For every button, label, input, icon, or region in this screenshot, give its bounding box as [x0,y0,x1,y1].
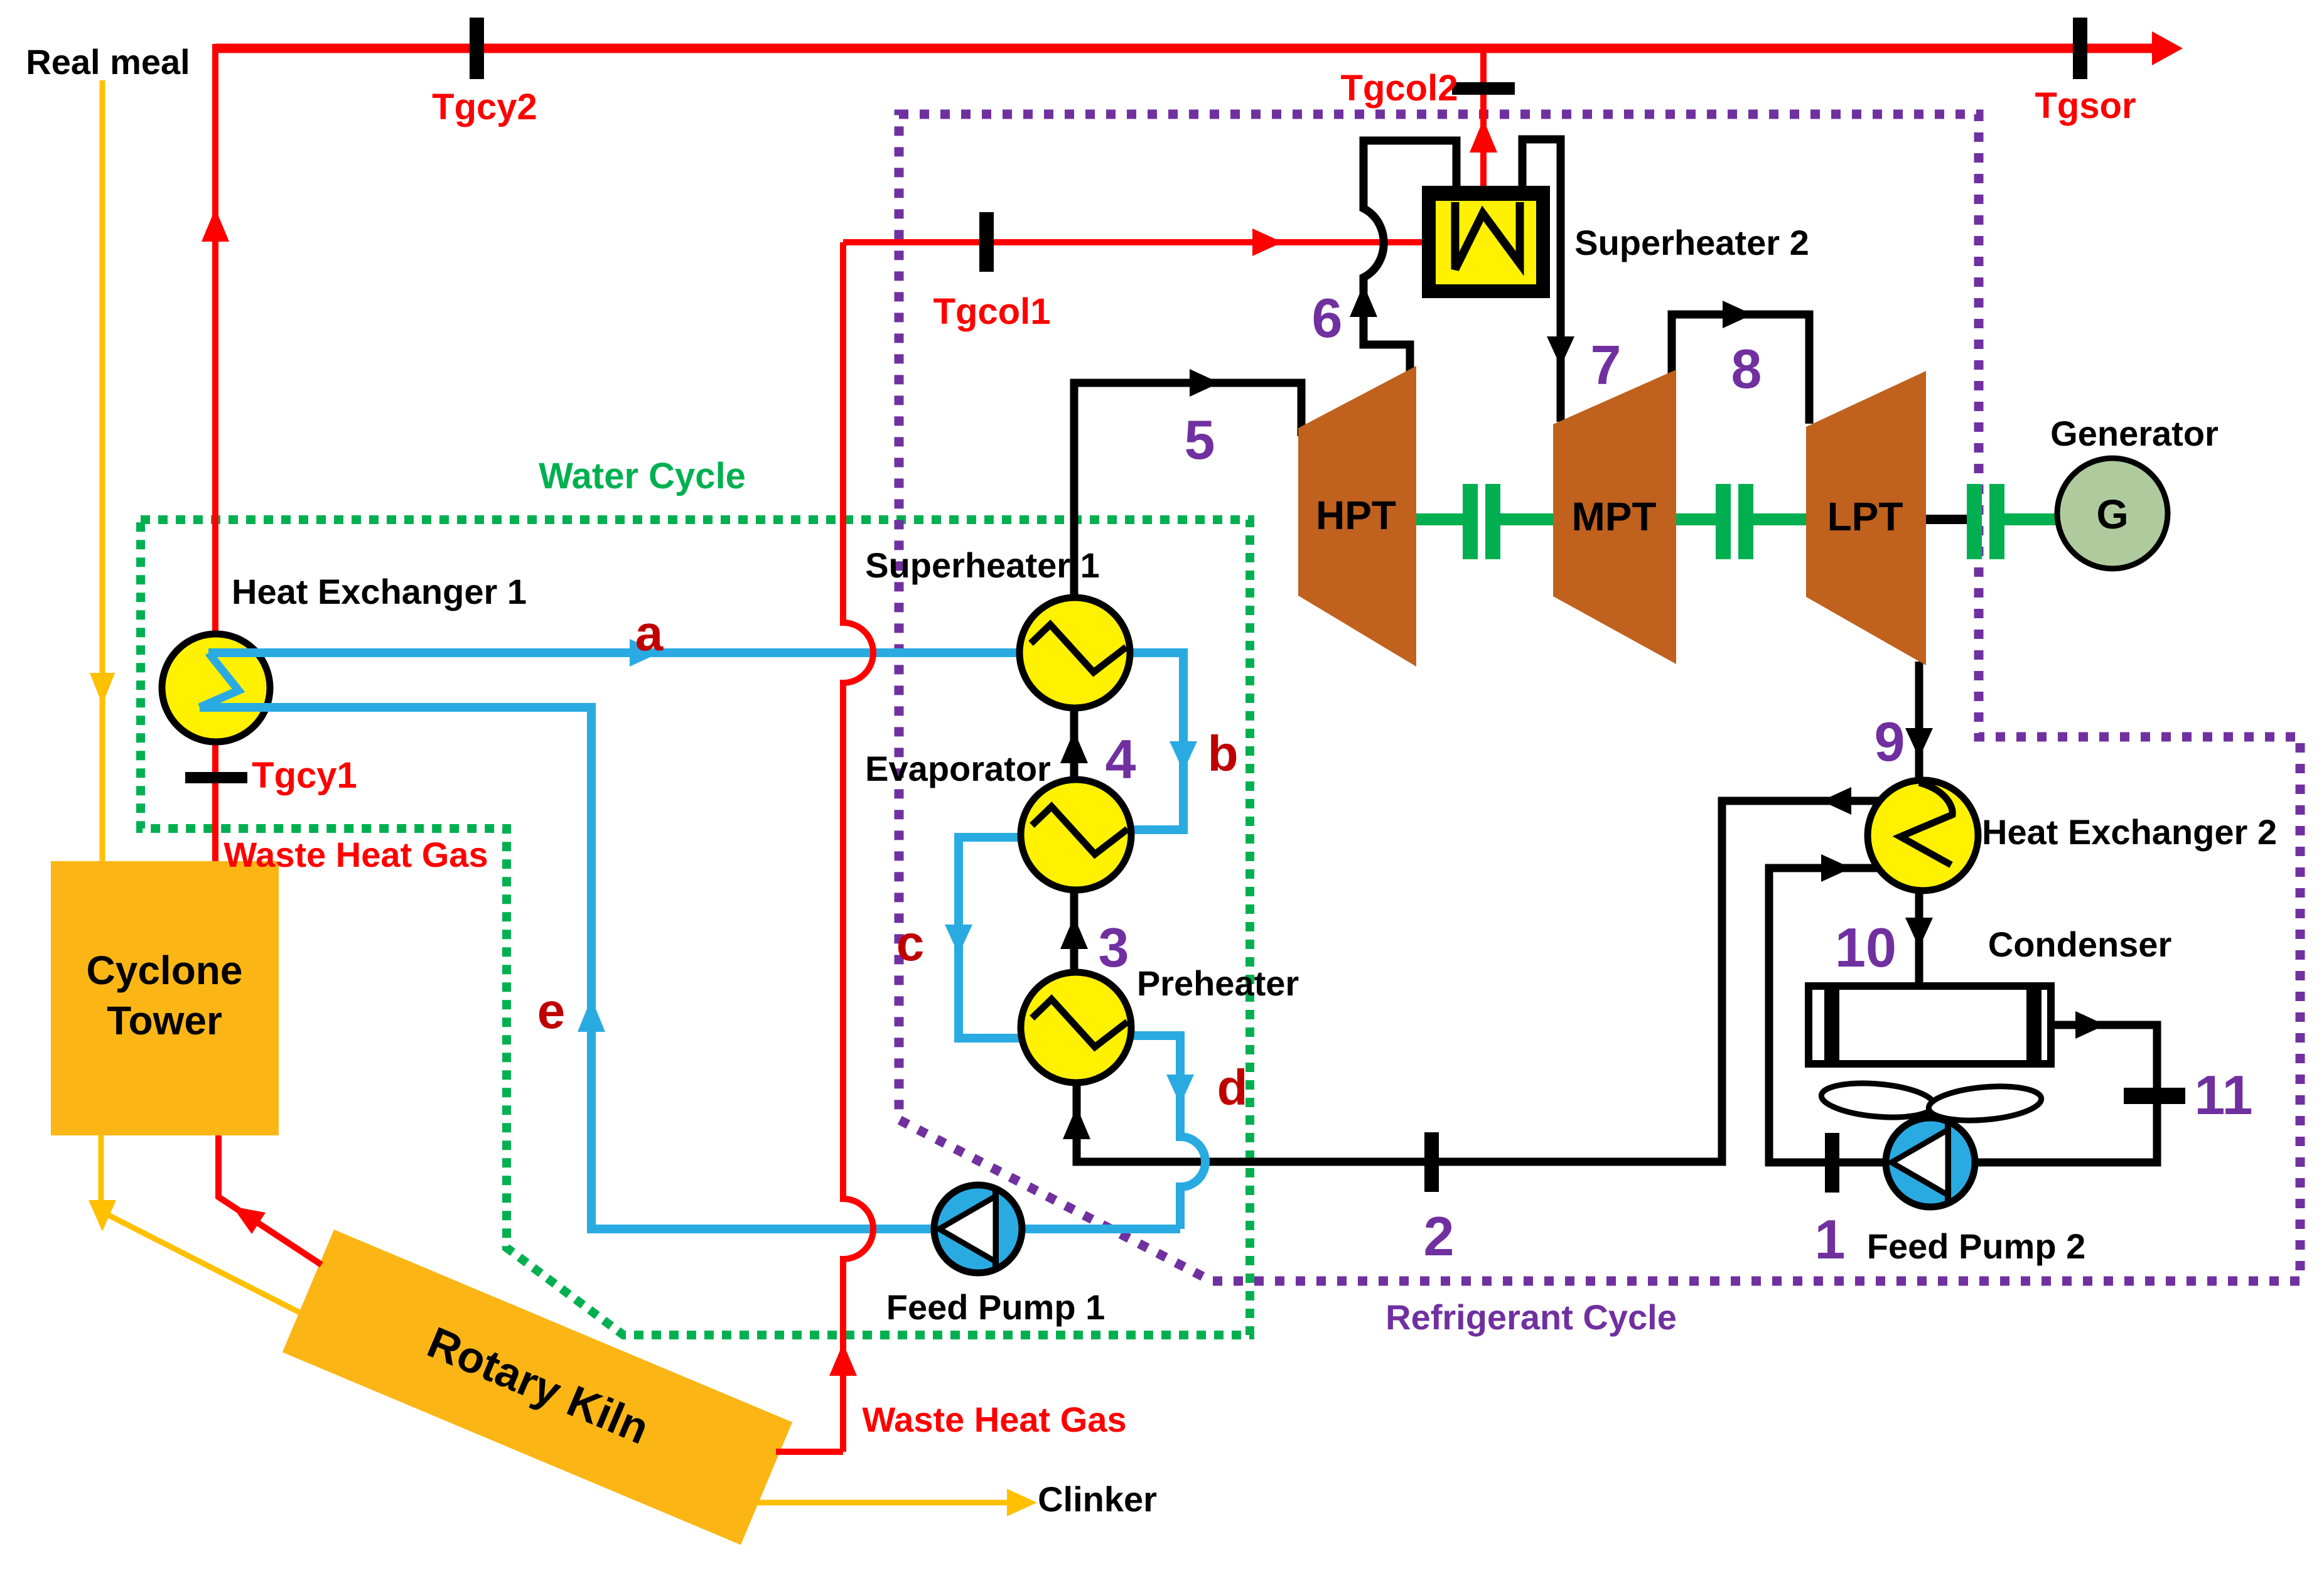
evaporator [1021,780,1131,890]
superheater 1 [1019,598,1130,708]
arrow up on e line [578,998,605,1032]
arrow up node 4 [1060,731,1088,763]
svg-text:8: 8 [1731,338,1762,400]
wire: water a line [208,648,1019,657]
svg-text:Tower: Tower [107,998,222,1043]
arrow up node 3 [1060,916,1088,949]
svg-text:7: 7 [1591,334,1622,396]
svg-text:11: 11 [2194,1064,2252,1126]
svg-text:LPT: LPT [1827,494,1903,539]
svg-text:Preheater: Preheater [1137,963,1299,1003]
sensor tick 11 [2124,1088,2185,1104]
arrow up out of superheater 2 [1470,119,1497,153]
svg-text:Tgcol2: Tgcol2 [1341,68,1458,109]
svg-text:Waste Heat Gas: Waste Heat Gas [862,1400,1126,1439]
svg-text:Condenser: Condenser [1988,925,2172,964]
svg-text:Heat Exchanger 1: Heat Exchanger 1 [232,572,527,611]
condenser [1809,986,2051,1064]
wire: steam node 8 pipe [1672,314,1809,424]
svg-text:9: 9 [1875,710,1905,773]
sensor tick Tgsor [2073,18,2087,79]
wire: steam node 5 pipe [1074,383,1301,598]
wire: water c line [959,837,1021,1038]
svg-text:HPT: HPT [1316,493,1396,538]
wire: raw meal feed (yellow vertical) [100,80,105,861]
svg-text:Tgcol1: Tgcol1 [933,291,1051,332]
svg-text:10: 10 [1835,916,1896,979]
turbine HPT [1298,366,1416,667]
svg-text:2: 2 [1424,1205,1455,1267]
svg-text:b: b [1208,726,1239,781]
coupling HPT-MPT [1416,484,1553,559]
arrow up into preheater [1063,1107,1090,1139]
wire: red gas HX1 to cyclone tower [212,743,218,861]
arrow on a line [630,639,660,667]
arrow down on d line [1166,1075,1194,1105]
wire: water d line with hop [1131,1036,1205,1229]
svg-text:1: 1 [1815,1208,1846,1270]
turbine LPT [1806,371,1926,665]
heat exchanger 1 body [162,634,270,742]
arrow into HX2 lower [1821,854,1851,882]
wire: clinker line (yellow) [758,1500,1023,1506]
svg-text:d: d [1217,1059,1248,1115]
sensor tick Tgcy1 [185,772,247,783]
svg-text:Heat Exchanger 2: Heat Exchanger 2 [1982,812,2277,852]
arrow clinker [1007,1489,1037,1516]
turbine MPT [1553,370,1676,664]
wire: condenser outlet node 11 [1974,1025,2157,1162]
arrow down on node 9 pipe [1905,728,1933,758]
wire: node 4 pipe [1070,708,1079,780]
svg-text:Feed Pump 1: Feed Pump 1 [886,1287,1106,1327]
arrow on raw meal line [90,673,115,705]
wire: red gas to superheater 2 [843,239,1426,245]
svg-text:3: 3 [1099,916,1129,979]
svg-text:a: a [635,605,664,661]
refrigerant cycle boundary (purple dashed) [899,114,2300,1281]
sensor tick 2 [1424,1132,1439,1192]
wire: water b line [1130,653,1183,830]
arrow up on HX1 riser [202,208,229,242]
svg-text:Real meal: Real meal [26,42,190,82]
svg-text:Superheater 2: Superheater 2 [1574,223,1809,262]
wire: red gas top line [215,44,2152,53]
arrow on node 5 pipe [1190,369,1220,397]
svg-text:G: G [2096,491,2128,537]
svg-text:MPT: MPT [1571,494,1656,539]
wire: node 3 pipe [1070,890,1079,972]
wire: node 2 line HX2 to preheater [1077,801,1880,1162]
arrow up on kiln riser [829,1343,857,1376]
wire: red gas out of superheater 2 [1480,44,1487,186]
sensor tick Tgcol1 [979,212,994,272]
condenser fan [1820,1079,2043,1124]
svg-text:4: 4 [1106,728,1136,790]
svg-text:Tgcy1: Tgcy1 [252,755,357,796]
wire: meal from tower to kiln (yellow) [101,1135,299,1312]
wire: red gas up from heat exchanger 1 [212,44,218,633]
svg-text:c: c [896,915,925,971]
svg-text:Generator: Generator [2050,414,2219,453]
wire: red gas cyclone tower to kiln [218,1135,321,1265]
feed pump 1 [934,1185,1022,1273]
arrow on node 8 pipe [1723,301,1753,328]
svg-text:Clinker: Clinker [1038,1479,1157,1519]
shaft LPT-generator [1926,515,1967,524]
sensor tick Tgcol2 [1452,82,1515,95]
superheater 2 [1422,186,1550,298]
heat exchanger 1 internal coil [200,653,239,707]
svg-text:Feed Pump 2: Feed Pump 2 [1867,1226,2086,1266]
arrow on condenser outlet [2075,1011,2106,1039]
arrow down on c line [945,925,972,955]
arrow toward superheater 2 [1252,228,1283,256]
feed pump 2 [1886,1118,1975,1207]
svg-text:Superheater 1: Superheater 1 [865,545,1100,585]
svg-text:e: e [537,983,566,1039]
svg-text:Water Cycle: Water Cycle [539,456,746,496]
heat exchanger 2 [1868,780,1978,891]
sensor tick Tgcy2 [470,18,484,79]
svg-text:6: 6 [1312,287,1343,349]
svg-text:Refrigerant Cycle: Refrigerant Cycle [1385,1297,1677,1337]
coupling MPT-LPT [1676,484,1806,559]
preheater [1021,972,1131,1083]
arrow up on node 6 pipe [1350,284,1377,317]
svg-text:Tgsor: Tgsor [2035,85,2136,126]
arrow down on node 7 pipe [1547,336,1574,367]
arrow out of HX2 upper [1821,787,1851,815]
svg-text:Waste Heat Gas: Waste Heat Gas [223,835,488,874]
coupling LPT-generator [1967,484,2060,559]
wire: feed pump 2 discharge to HX2 [1769,868,1886,1162]
arrow down on node 10 pipe [1905,918,1933,948]
cyclone tower [51,861,279,1135]
wire: steam node 7 pipe [1522,139,1561,422]
svg-text:5: 5 [1185,409,1215,471]
svg-text:Tgcy2: Tgcy2 [432,87,537,127]
wire: node 10 pipe HX2 to condenser [1915,891,1923,986]
arrow on tower-kiln meal line [89,1200,116,1231]
rotary kiln [282,1230,792,1545]
svg-text:Evaporator: Evaporator [865,749,1051,788]
water cycle boundary (green dotted) [141,520,1250,1335]
arrow on tower-kiln red line [232,1206,266,1234]
wire: water e line [200,707,1180,1229]
wire: steam node 6 pipe with hop [1364,141,1456,378]
wire: node 9 pipe LPT to HX2 [1915,662,1923,780]
arrow down on b line [1170,741,1197,771]
generator G [2057,458,2168,569]
arrow at Tgsor end [2152,31,2183,65]
svg-text:Cyclone: Cyclone [87,948,243,993]
sensor tick 1 [1825,1133,1839,1193]
wire: red gas kiln riser with hops [776,242,873,1452]
